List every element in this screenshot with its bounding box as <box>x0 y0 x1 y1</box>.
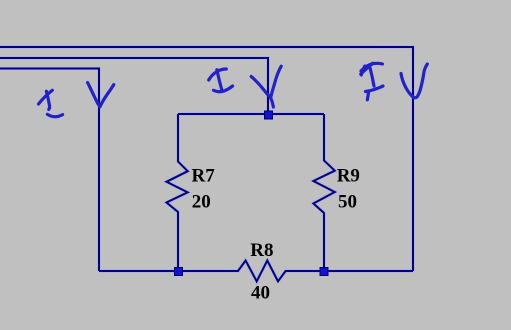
annotation I3 cross scribble <box>361 63 373 74</box>
annotation I2 stem <box>217 70 222 91</box>
svg-text:50: 50 <box>338 192 357 213</box>
annotation arrow 3 bottom and right stroke <box>413 64 428 98</box>
node center top <box>265 111 273 119</box>
annotation I1 underline <box>47 114 62 116</box>
resistor R8 and bottom wire <box>99 261 413 282</box>
annotation I1 top bar <box>39 90 53 104</box>
annotation I1 stem <box>46 91 49 109</box>
svg-text:R9: R9 <box>337 166 360 187</box>
annotation I3 descender <box>367 92 368 100</box>
annotation arrow 1 right stroke <box>100 85 114 107</box>
annotation arrow 3 left stroke <box>401 74 413 97</box>
wire halo R9 branch <box>313 114 334 271</box>
wire halo second rail <box>0 58 268 114</box>
wire halo R7 branch <box>167 114 188 271</box>
resistor R7 <box>167 114 188 271</box>
wire halo bottom <box>99 261 413 282</box>
annotation I3 stem <box>370 67 374 87</box>
svg-text:40: 40 <box>251 283 270 304</box>
annotation I2 bottom bar <box>214 86 233 92</box>
svg-text:20: 20 <box>192 192 211 213</box>
wire: top rail to right branch <box>0 47 413 271</box>
annotation arrow 2 tail <box>271 98 274 107</box>
node bottom left <box>175 268 183 276</box>
wire halo top rail <box>0 47 413 271</box>
annotation I2 top bar <box>209 69 227 80</box>
svg-text:R7: R7 <box>192 166 216 187</box>
wire: second rail to center node <box>0 58 268 114</box>
node bottom right <box>320 268 328 276</box>
wire halo inner top <box>178 112 324 116</box>
annotation arrow 1 left stroke <box>88 83 100 107</box>
wire: third rail to left branch <box>0 69 99 272</box>
annotation arrow 2 left stroke <box>251 77 268 95</box>
annotation arrow 2 tip and right stroke <box>268 66 281 97</box>
annotation I3 tick <box>361 66 365 75</box>
resistor R9 <box>313 114 334 271</box>
annotation I3 top bar <box>361 63 383 71</box>
wire halo third rail <box>0 69 99 272</box>
svg-text:R8: R8 <box>250 240 273 261</box>
wire: inner top <box>178 113 324 115</box>
annotation I3 bottom bar <box>366 86 384 92</box>
